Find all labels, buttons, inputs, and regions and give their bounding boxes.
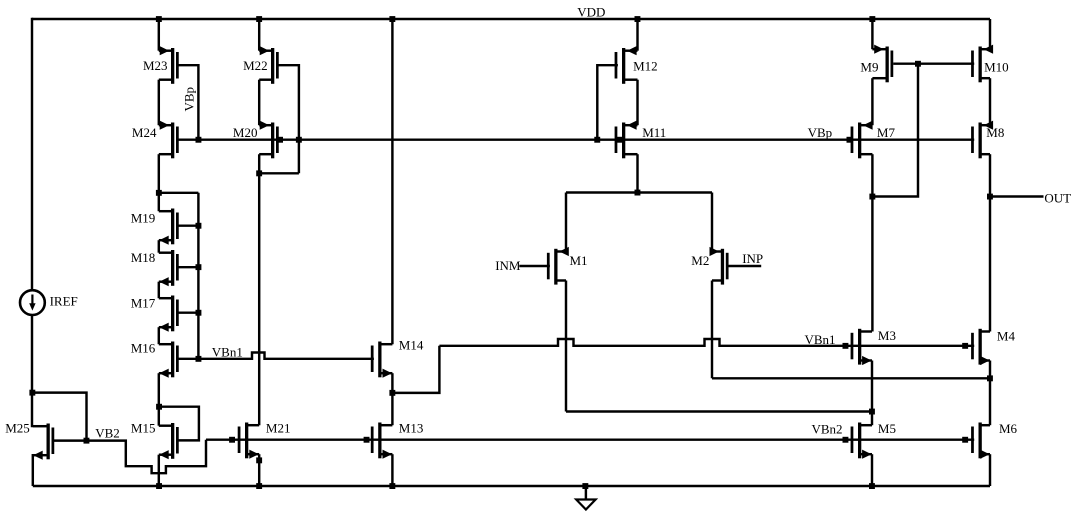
wire M10 source from VDD <box>989 19 991 49</box>
wire diode chain gate bus <box>197 193 199 359</box>
node ground junction at M15 <box>156 483 162 489</box>
wire VBn1 line to M14 gate <box>198 353 374 359</box>
wire M9 source from VDD <box>871 19 873 49</box>
ground symbol <box>576 486 595 510</box>
node ground junction at ground symbol <box>582 483 588 489</box>
wire M5 drain up <box>871 412 873 426</box>
wire IREF to M25 drain <box>31 315 33 427</box>
node M9 gate junction <box>915 61 921 67</box>
wire M23 source from VDD <box>158 19 160 51</box>
svg-text:VBn1: VBn1 <box>805 332 836 347</box>
node VBp junction M23 gate <box>196 137 202 143</box>
node gate bus junction M17 <box>196 310 202 316</box>
svg-text:M21: M21 <box>266 420 291 435</box>
node ground junction at M5 <box>869 483 875 489</box>
node VBp junction M22 gate <box>296 137 302 143</box>
wire M19 source to M18 drain <box>158 240 160 253</box>
transistor M20 <box>233 121 279 159</box>
svg-text:M19: M19 <box>131 211 156 226</box>
svg-text:OUT: OUT <box>1044 190 1071 205</box>
wire VBn1 jog from M13 drain <box>392 346 439 393</box>
wire M9 gate to M7 drain <box>872 64 918 197</box>
node VDD junction at M12 <box>635 16 641 22</box>
wire M23 gate to VBp <box>179 65 199 140</box>
wire VBp distribution line <box>179 138 975 140</box>
svg-text:M24: M24 <box>132 125 157 140</box>
wire M7 drain to M3 drain <box>871 197 873 332</box>
wire fold line to M3 source <box>566 410 872 412</box>
transistor M5 <box>851 421 896 459</box>
svg-text:M16: M16 <box>131 341 156 356</box>
wire M22 source from VDD <box>258 19 260 51</box>
node M21 source junction <box>256 457 262 463</box>
svg-text:M18: M18 <box>131 250 156 265</box>
node VBp junction M11 gate <box>617 137 623 143</box>
wire M24 drain to M19 drain <box>158 154 160 211</box>
svg-text:VB2: VB2 <box>95 425 120 440</box>
transistor M1 <box>547 247 588 285</box>
wire M22 gate to VBp <box>279 65 299 173</box>
svg-text:M10: M10 <box>984 59 1009 74</box>
transistor M6 <box>971 421 1017 459</box>
node VBp junction M12 gate <box>594 137 600 143</box>
wire OUT lead <box>990 195 1044 197</box>
wire M9 drain to M7 source <box>871 78 873 125</box>
svg-text:M8: M8 <box>986 125 1004 140</box>
current source IREF <box>20 290 45 315</box>
node fold junction M3 source <box>869 409 875 415</box>
wire M20 drain link <box>259 172 299 174</box>
svg-text:VBp: VBp <box>808 125 833 140</box>
wire tail node <box>566 191 712 193</box>
transistor M14 <box>371 338 424 378</box>
svg-text:M14: M14 <box>399 338 424 353</box>
VSS ground rail <box>33 485 990 487</box>
svg-text:M12: M12 <box>633 59 658 74</box>
node ground junction at M21 <box>256 483 262 489</box>
svg-text:INM: INM <box>495 258 521 273</box>
wire M11 drain to tail node <box>636 154 638 192</box>
transistor M19 <box>131 209 179 245</box>
wire M15 diode loop <box>159 407 199 441</box>
node OUT junction <box>987 194 993 200</box>
wire VB2 to VBn2 line (jog) <box>87 440 207 474</box>
svg-text:M6: M6 <box>999 421 1018 436</box>
transistor M9 <box>860 45 893 83</box>
wire M25 drain-gate loop <box>32 393 86 441</box>
svg-text:M7: M7 <box>877 125 896 140</box>
svg-text:M25: M25 <box>5 420 30 435</box>
node M20 drain junction <box>256 170 262 176</box>
svg-text:M11: M11 <box>642 125 666 140</box>
transistor M23 <box>143 46 179 84</box>
node tail junction <box>635 190 641 196</box>
wire node to M13 drain <box>391 393 393 425</box>
wire M12 gate to VBp <box>597 65 618 140</box>
wire M2 source <box>711 193 713 252</box>
node VBn1 junction M3 gate <box>843 343 849 349</box>
transistor M8 <box>971 121 1004 159</box>
transistor M4 <box>971 328 1015 365</box>
wire M17 gate lead <box>179 311 199 313</box>
node M25 drain junction <box>29 390 35 396</box>
wire M1 source <box>565 193 567 252</box>
wire M19 gate lead <box>179 224 199 226</box>
transistor M3 <box>851 328 896 365</box>
transistor M12 <box>615 46 658 84</box>
node fold junction M4 source <box>987 375 993 381</box>
wire VBn1 line to M3 M4 gates <box>439 339 974 346</box>
wire M16 source to M15 drain <box>158 373 160 426</box>
svg-text:M2: M2 <box>691 253 709 268</box>
wire M16 gate lead <box>179 358 199 360</box>
node VDD junction at M14 branch <box>389 16 395 22</box>
node VBn2 junction before M13 <box>364 437 370 443</box>
wire M14 source to node <box>391 373 393 393</box>
node VDD junction at M9 <box>869 16 875 22</box>
wire M22 drain to M20 source <box>258 80 260 126</box>
svg-text:VBn2: VBn2 <box>812 421 843 436</box>
node M20 gate junction <box>277 137 283 143</box>
wire M25 gate lead <box>54 439 87 441</box>
wire M13 source to ground <box>391 454 393 486</box>
wire VDD to M14 drain <box>391 19 393 344</box>
wire M20 drain to M21 drain <box>258 154 260 425</box>
node M13 drain junction <box>389 390 395 396</box>
wire M5 source to ground <box>871 454 873 486</box>
node M15 drain tap junction <box>156 404 162 410</box>
transistor M18 <box>131 250 179 286</box>
node gate bus junction M18 <box>196 264 202 270</box>
wire M12 source from VDD <box>636 19 638 51</box>
wire M25 source to ground rail <box>32 454 34 486</box>
wire M6 drain up <box>989 378 991 425</box>
transistor M2 <box>691 247 728 285</box>
wire M6 source to ground <box>989 454 991 486</box>
node gate bus junction VBn1 <box>196 356 202 362</box>
svg-text:VBp: VBp <box>182 87 197 112</box>
wire M8 drain to M4 drain <box>989 197 991 332</box>
svg-text:M17: M17 <box>131 295 156 310</box>
node VDD junction at M23 <box>156 16 162 22</box>
node M24 drain tap junction <box>156 190 162 196</box>
wire M8 drain down <box>989 154 991 196</box>
transistor M17 <box>131 295 179 332</box>
svg-text:IREF: IREF <box>50 294 78 309</box>
wire INM lead <box>519 265 550 267</box>
node M7 drain junction <box>869 194 875 200</box>
svg-text:M3: M3 <box>878 328 896 343</box>
wire M21 source to ground <box>258 454 260 486</box>
wire M3 source down <box>871 361 873 412</box>
node VBn1 junction M4 gate <box>962 343 968 349</box>
transistor M7 <box>851 121 896 159</box>
wire M4 source down <box>989 361 991 379</box>
node VB2 junction at M25 gate <box>84 438 90 444</box>
svg-text:M22: M22 <box>243 58 268 73</box>
VDD power rail <box>32 18 990 21</box>
node VBn2 junction M5 gate <box>843 437 849 443</box>
node VDD junction at M22 <box>256 16 262 22</box>
svg-text:M1: M1 <box>570 253 588 268</box>
transistor M10 <box>971 45 1009 83</box>
wire INP lead <box>728 265 761 267</box>
svg-text:M5: M5 <box>878 421 896 436</box>
node ground junction at M13 <box>389 483 395 489</box>
wire M24 drain to gate bus <box>159 192 199 194</box>
transistor M25 <box>5 420 54 459</box>
wire M15 source to ground rail <box>158 455 160 486</box>
svg-text:INP: INP <box>742 251 763 266</box>
svg-text:M20: M20 <box>233 125 258 140</box>
wire VBn2 line M21 M13 M5 M6 gates <box>206 438 974 440</box>
transistor M16 <box>131 341 179 378</box>
node gate bus junction M19 <box>196 223 202 229</box>
node VBn2 junction before M21 <box>229 437 235 443</box>
svg-text:M9: M9 <box>860 59 878 74</box>
svg-text:M13: M13 <box>399 420 424 435</box>
wire M2 drain fold <box>711 281 713 379</box>
transistor M13 <box>371 420 424 458</box>
wire M10 drain to M8 source <box>989 78 991 125</box>
node VBn2 junction M6 gate <box>962 437 968 443</box>
wire M18 source to M17 drain <box>158 282 160 299</box>
wire M23 drain to M24 source <box>158 80 160 126</box>
transistor M11 <box>615 121 667 159</box>
wire M1 drain fold <box>565 281 567 412</box>
wire fold line to M4 source <box>712 377 990 379</box>
wire M9 M10 gate link <box>893 62 974 64</box>
svg-text:M23: M23 <box>143 58 168 73</box>
wire M7 drain down <box>871 154 873 196</box>
transistor M15 <box>131 420 179 459</box>
svg-text:M4: M4 <box>997 328 1016 343</box>
wire VDD to IREF <box>31 18 33 290</box>
svg-text:M15: M15 <box>131 420 156 435</box>
svg-text:VBn1: VBn1 <box>212 345 243 360</box>
node VBp junction M7 gate <box>847 137 853 143</box>
transistor M22 <box>243 46 279 84</box>
wire M17 source to M16 drain <box>158 327 160 344</box>
transistor M24 <box>132 121 179 159</box>
wire M18 gate lead <box>179 266 199 268</box>
transistor M21 <box>238 420 291 458</box>
wire M12 drain to M11 source <box>636 80 638 126</box>
svg-text:VDD: VDD <box>577 5 605 20</box>
